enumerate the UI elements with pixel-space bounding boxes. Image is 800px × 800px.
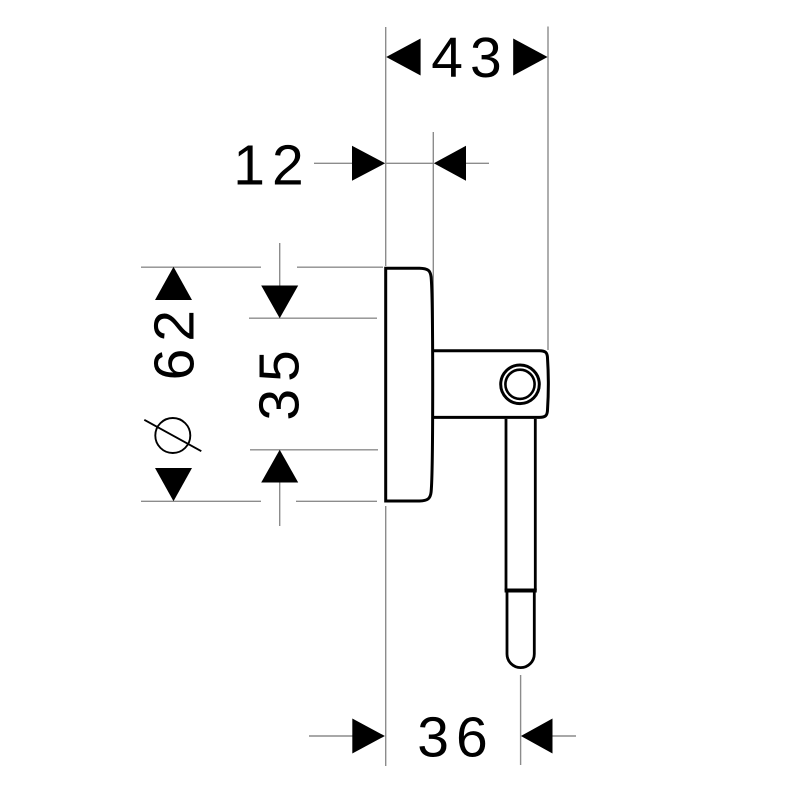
screw inner ring — [505, 370, 534, 399]
svg-text:43: 43 — [431, 26, 508, 90]
diameter symbol — [144, 418, 201, 453]
svg-text:35: 35 — [248, 343, 312, 420]
extension line plate front (x=433.6, y 132-349) — [432, 132, 434, 349]
arrow 35 top — [261, 286, 298, 319]
arrow 43 right — [513, 39, 547, 76]
arrow 12 left — [352, 146, 385, 181]
wall plate — [386, 268, 433, 501]
extension line wall bottom (x=385.7, y 506-766) — [385, 506, 387, 766]
dimension 12 line between extension lines (y=163) — [386, 162, 434, 164]
extension line arm tip (x=548, y 26-350) — [547, 27, 549, 351]
arm — [431, 351, 549, 418]
extension line plate bottom right segment (y=501) — [296, 500, 377, 502]
svg-text:12: 12 — [233, 134, 310, 198]
arrow 12 right — [434, 146, 466, 181]
dimension 36 right tail (y=736) — [551, 735, 576, 737]
arrow 35 bottom — [261, 450, 298, 483]
arrow 62 bottom — [155, 468, 192, 501]
extension line plate bottom left segment (y=501) — [141, 500, 261, 502]
dimension 36 left tail (y=736) — [309, 735, 353, 737]
extension line plate top right segment (y=267) — [297, 266, 383, 268]
svg-text:62: 62 — [142, 303, 206, 380]
arrow 36 left — [352, 719, 385, 754]
extension line arm bottom (y=450) — [250, 449, 378, 451]
rod upper section — [506, 419, 535, 591]
arrow 43 left — [386, 39, 420, 76]
dimension 12 left tail (y=163) — [314, 162, 353, 164]
svg-text:36: 36 — [417, 706, 494, 770]
extension line wall top (x=385.7, y 30-266) — [385, 27, 387, 266]
screw outer ring — [501, 365, 540, 404]
rod lower section with rounded tip — [507, 591, 534, 668]
extension line rod axis (x=520.6, y 675-765) — [520, 675, 522, 765]
dimension 35 bottom tail (x=279.5) — [279, 482, 281, 526]
extension line plate top left segment (y=267) — [141, 266, 261, 268]
arrow 36 right — [521, 719, 553, 754]
dimension 35 top tail (x=279.5) — [279, 243, 281, 287]
arrow 62 top — [155, 267, 192, 300]
rod joint line — [505, 589, 537, 593]
extension line arm top (y=318) — [249, 317, 377, 319]
dimension 12 right tail (y=163) — [465, 162, 489, 164]
